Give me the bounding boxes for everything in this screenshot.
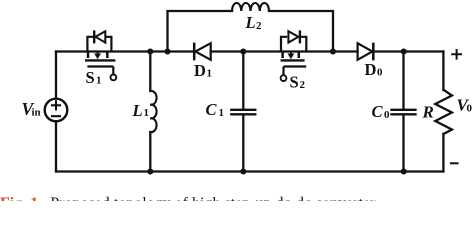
svg-text:1: 1 xyxy=(207,68,213,80)
svg-text:1: 1 xyxy=(96,75,102,87)
svg-text:R: R xyxy=(422,103,434,122)
svg-text:1: 1 xyxy=(219,107,225,119)
svg-text:0: 0 xyxy=(377,67,383,79)
svg-text:D: D xyxy=(365,60,377,79)
svg-text:2: 2 xyxy=(256,20,262,32)
svg-text:S: S xyxy=(86,68,95,87)
svg-text:S: S xyxy=(290,73,299,92)
svg-text:L: L xyxy=(245,13,256,32)
svg-text:0: 0 xyxy=(384,109,390,121)
svg-text:C: C xyxy=(372,102,384,121)
svg-text:in: in xyxy=(32,107,41,119)
svg-text:D: D xyxy=(194,61,206,80)
svg-text:L: L xyxy=(132,101,143,120)
svg-text:1: 1 xyxy=(144,107,150,119)
svg-text:0: 0 xyxy=(467,103,473,115)
svg-text:2: 2 xyxy=(300,79,306,91)
svg-text:C: C xyxy=(206,100,218,119)
